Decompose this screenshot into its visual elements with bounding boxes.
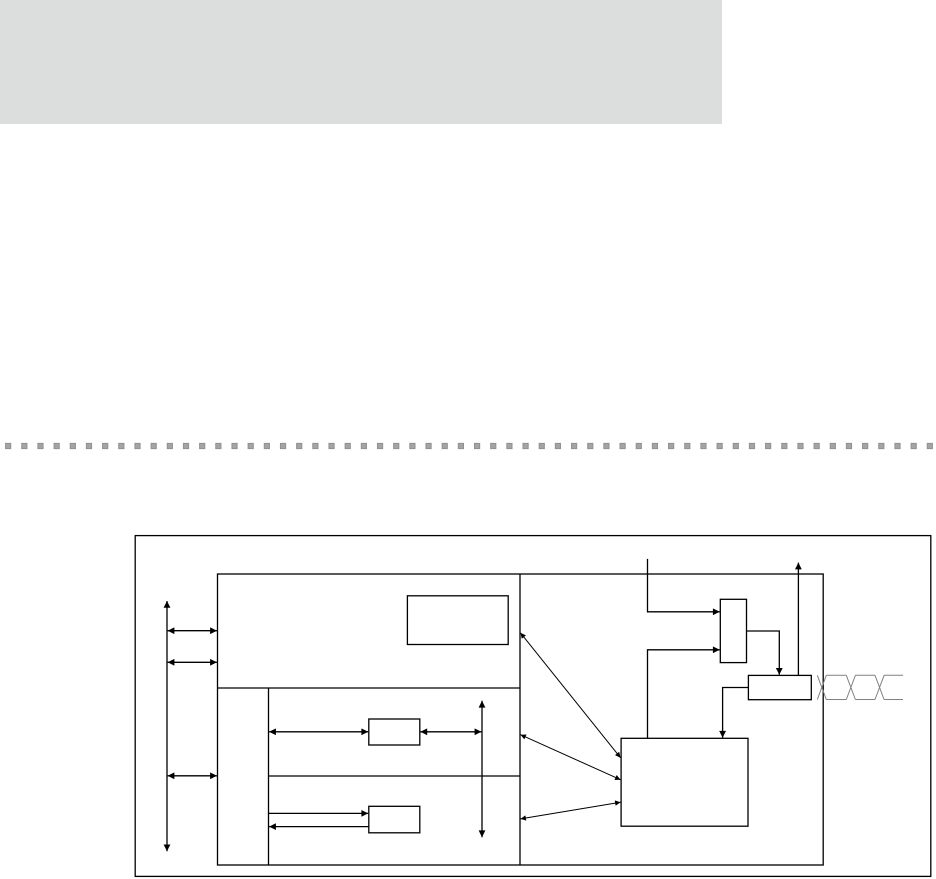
row 1 right double arrow	[420, 731, 481, 733]
main block outline	[218, 574, 824, 865]
lower-left column divider wire	[268, 688, 270, 865]
wire from block F to block D input 2	[648, 650, 720, 739]
block E output up arrow	[797, 563, 799, 676]
lower-left row divider wire	[269, 775, 521, 777]
diagonal double arrow 3	[521, 802, 621, 819]
dotted separator rule	[5, 443, 933, 449]
page header gray band	[0, 0, 722, 124]
wire block E to block F	[723, 688, 749, 738]
bus tap arrow 2	[168, 661, 217, 663]
block E (wide box)	[748, 675, 811, 699]
row 1 left double arrow	[269, 731, 368, 733]
wire into block D input 1	[648, 559, 720, 612]
block F (large lower-right box)	[621, 738, 748, 826]
bus tap arrow 3	[168, 775, 217, 777]
block D (tall box)	[720, 599, 746, 662]
upper-left block bottom wire	[218, 687, 521, 689]
figure outer frame	[135, 536, 931, 877]
left bus double arrow	[166, 601, 168, 851]
right bus double arrow	[481, 701, 483, 837]
twisted pair wire	[817, 675, 903, 699]
wire block D to block E	[747, 631, 780, 675]
diagonal double arrow 1	[521, 633, 621, 758]
row 2 right-going arrow	[269, 812, 369, 814]
block C (row 2 box)	[369, 806, 420, 833]
diagonal double arrow 2	[521, 735, 621, 780]
block B (row 1 box)	[369, 719, 420, 745]
block A (upper-left inner box)	[407, 596, 508, 645]
row 2 left-going arrow	[269, 826, 369, 828]
bus tap arrow 1	[168, 630, 217, 632]
center divider wire	[519, 574, 521, 865]
